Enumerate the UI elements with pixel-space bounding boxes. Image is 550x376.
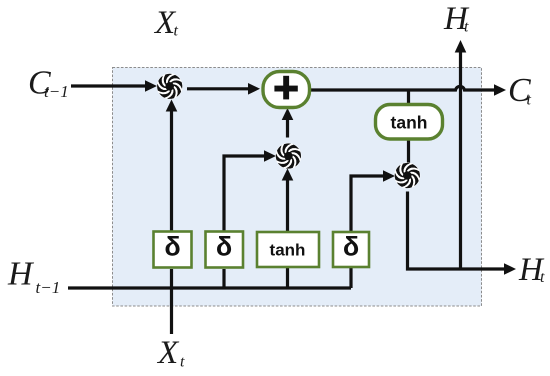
svg-text:t: t (527, 92, 532, 109)
wire: X_t input from bottom up to H line (170, 288, 173, 334)
svg-text:X: X (156, 335, 180, 371)
svg-text:t: t (464, 19, 469, 36)
arrowhead up into plus node bottom (282, 108, 294, 120)
LSTM cell body (dashed light-blue rectangle) (113, 68, 482, 307)
tanh gate box (257, 232, 319, 267)
wire: sigma1 output up to pinwheel U1 (170, 111, 173, 231)
svg-text:t−1: t−1 (36, 278, 61, 297)
svg-text:tanh: tanh (270, 241, 306, 260)
pinwheel U2 (input multiply) (275, 143, 301, 169)
svg-text:H: H (7, 256, 35, 293)
wire: tanh block down to pinwheel U3 (407, 139, 410, 164)
arrowhead to C_t (494, 84, 506, 96)
wire: H branch up through cell to H_t top (459, 52, 462, 269)
arrowhead to H_t (top) (455, 40, 467, 53)
svg-text:t: t (174, 23, 179, 40)
wire: sigma3 up and right into pinwheel U3 (351, 176, 383, 231)
tanh block (output activation) (376, 105, 443, 140)
svg-text:δ: δ (343, 232, 359, 262)
arrowhead into pinwheel U2 left (264, 150, 276, 162)
wire: plus node output to C_t (with hop over H line) (310, 86, 494, 90)
wire: tanh gate up into pinwheel U2 bottom (286, 180, 289, 231)
wire: C(t-1) input line (71, 84, 146, 87)
wire: pinwheel U2 up into plus node (286, 119, 289, 138)
wire: stub from H line into tanh gate (286, 268, 289, 288)
svg-text:t: t (180, 354, 185, 371)
plus sign (283, 76, 289, 100)
svg-text:δ: δ (164, 232, 180, 262)
svg-text:t: t (540, 269, 545, 286)
svg-text:t−1: t−1 (44, 82, 69, 101)
wire: H(t-1) input line across the bottom (68, 286, 351, 289)
arrowhead into plus node (248, 83, 260, 95)
svg-text:δ: δ (216, 232, 232, 262)
svg-text:tanh: tanh (391, 113, 428, 133)
wire: sigma2 up and right into pinwheel U2 (224, 156, 264, 231)
sigma2 gate box (206, 232, 244, 268)
wire: stub from H line into sigma2 (222, 269, 225, 288)
arrowhead up into pinwheel U1 (166, 100, 178, 112)
plus node (cell-state addition) (263, 72, 310, 108)
arrowhead into pinwheel U3 left (383, 170, 395, 182)
arrowhead up into pinwheel U2 (282, 169, 294, 181)
wire: pinwheel U1 to plus node (187, 87, 249, 90)
wire: stub from H line into sigma3 (349, 268, 352, 288)
sigma3 gate box (333, 232, 369, 267)
wire: pinwheel U3 down and right to H_t output (408, 192, 505, 270)
arrowhead to H_t (bottom right) (504, 263, 516, 275)
wire: stub from H line into sigma1 (170, 269, 173, 288)
wire: branch down into tanh block (407, 91, 410, 104)
arrowhead into forget-gate pinwheel (145, 80, 157, 92)
sigma1 gate box (154, 232, 192, 268)
pinwheel U3 (output multiply) (394, 163, 420, 189)
pinwheel U1 (forget multiply) (157, 73, 183, 99)
